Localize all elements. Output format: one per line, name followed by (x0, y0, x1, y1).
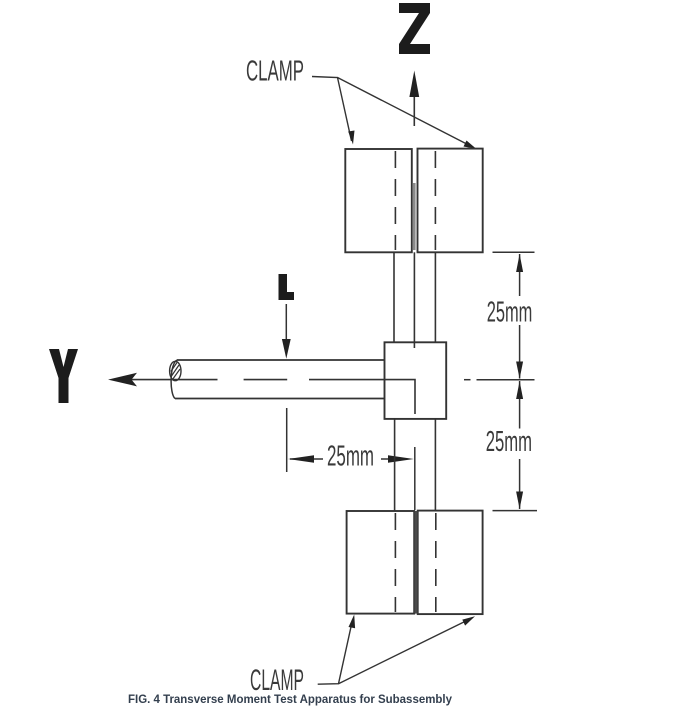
svg-text:FIG. 4 Transverse Moment Test: FIG. 4 Transverse Moment Test Apparatus … (128, 692, 452, 706)
leader branch to right top clamp (338, 78, 474, 148)
Z axis arrow (413, 96, 415, 126)
dimension reference line middle (464, 379, 471, 381)
tube end section (hatched) (170, 361, 181, 380)
specimen between top clamps (413, 183, 416, 250)
specimen between bottom clamps (415, 511, 418, 614)
dimension reference line top (493, 251, 535, 253)
hidden tube edge (dashed) in top-left clamp (394, 151, 396, 250)
Y axis arrow (131, 379, 218, 381)
horizontal tube bottom wall (175, 398, 385, 400)
label Z (399, 3, 430, 54)
vertical tube lower right wall (434, 419, 436, 511)
horizontal tube end cap (171, 360, 177, 399)
hidden tube edge (dashed) in top-right clamp (434, 151, 436, 250)
vertical tube upper centre seam (413, 252, 415, 348)
leader branch to bottom-right clamp (339, 618, 472, 684)
svg-text:CLAMP: CLAMP (246, 56, 304, 88)
central block (385, 342, 447, 419)
vertical dimension line upper (519, 254, 521, 296)
svg-text:25mm: 25mm (486, 426, 532, 458)
centre mark of vertical tube (414, 447, 416, 510)
clamp bottom-left block (347, 511, 415, 614)
dimension reference line bottom (493, 510, 538, 512)
hidden elbow inside block (309, 380, 415, 414)
horizontal dimension 25mm arrow left (290, 458, 323, 460)
dimension extension line left (286, 408, 288, 472)
horizontal dimension 25mm arrow right (381, 458, 390, 460)
svg-text:25mm: 25mm (327, 441, 374, 473)
hidden tube edge (dashed) in bottom-left clamp (394, 513, 396, 612)
svg-text:25mm: 25mm (487, 296, 533, 328)
clamp top-right block (418, 149, 483, 253)
label L (279, 274, 295, 300)
load arrow L (285, 304, 287, 342)
tube centreline dash (244, 379, 288, 381)
horizontal tube top wall (177, 359, 385, 361)
leader line from bottom CLAMP (318, 620, 353, 684)
clamp top-left block (345, 149, 412, 252)
hidden tube edge (dashed) in bottom-right clamp (435, 513, 437, 612)
label Y (49, 349, 78, 403)
leader line from top CLAMP (312, 77, 352, 142)
vertical tube lower left wall (394, 419, 396, 511)
vertical dimension line lower (519, 381, 521, 429)
clamp bottom-right block (418, 511, 483, 614)
vertical tube upper right wall (434, 252, 436, 342)
vertical tube upper left wall (393, 252, 395, 342)
